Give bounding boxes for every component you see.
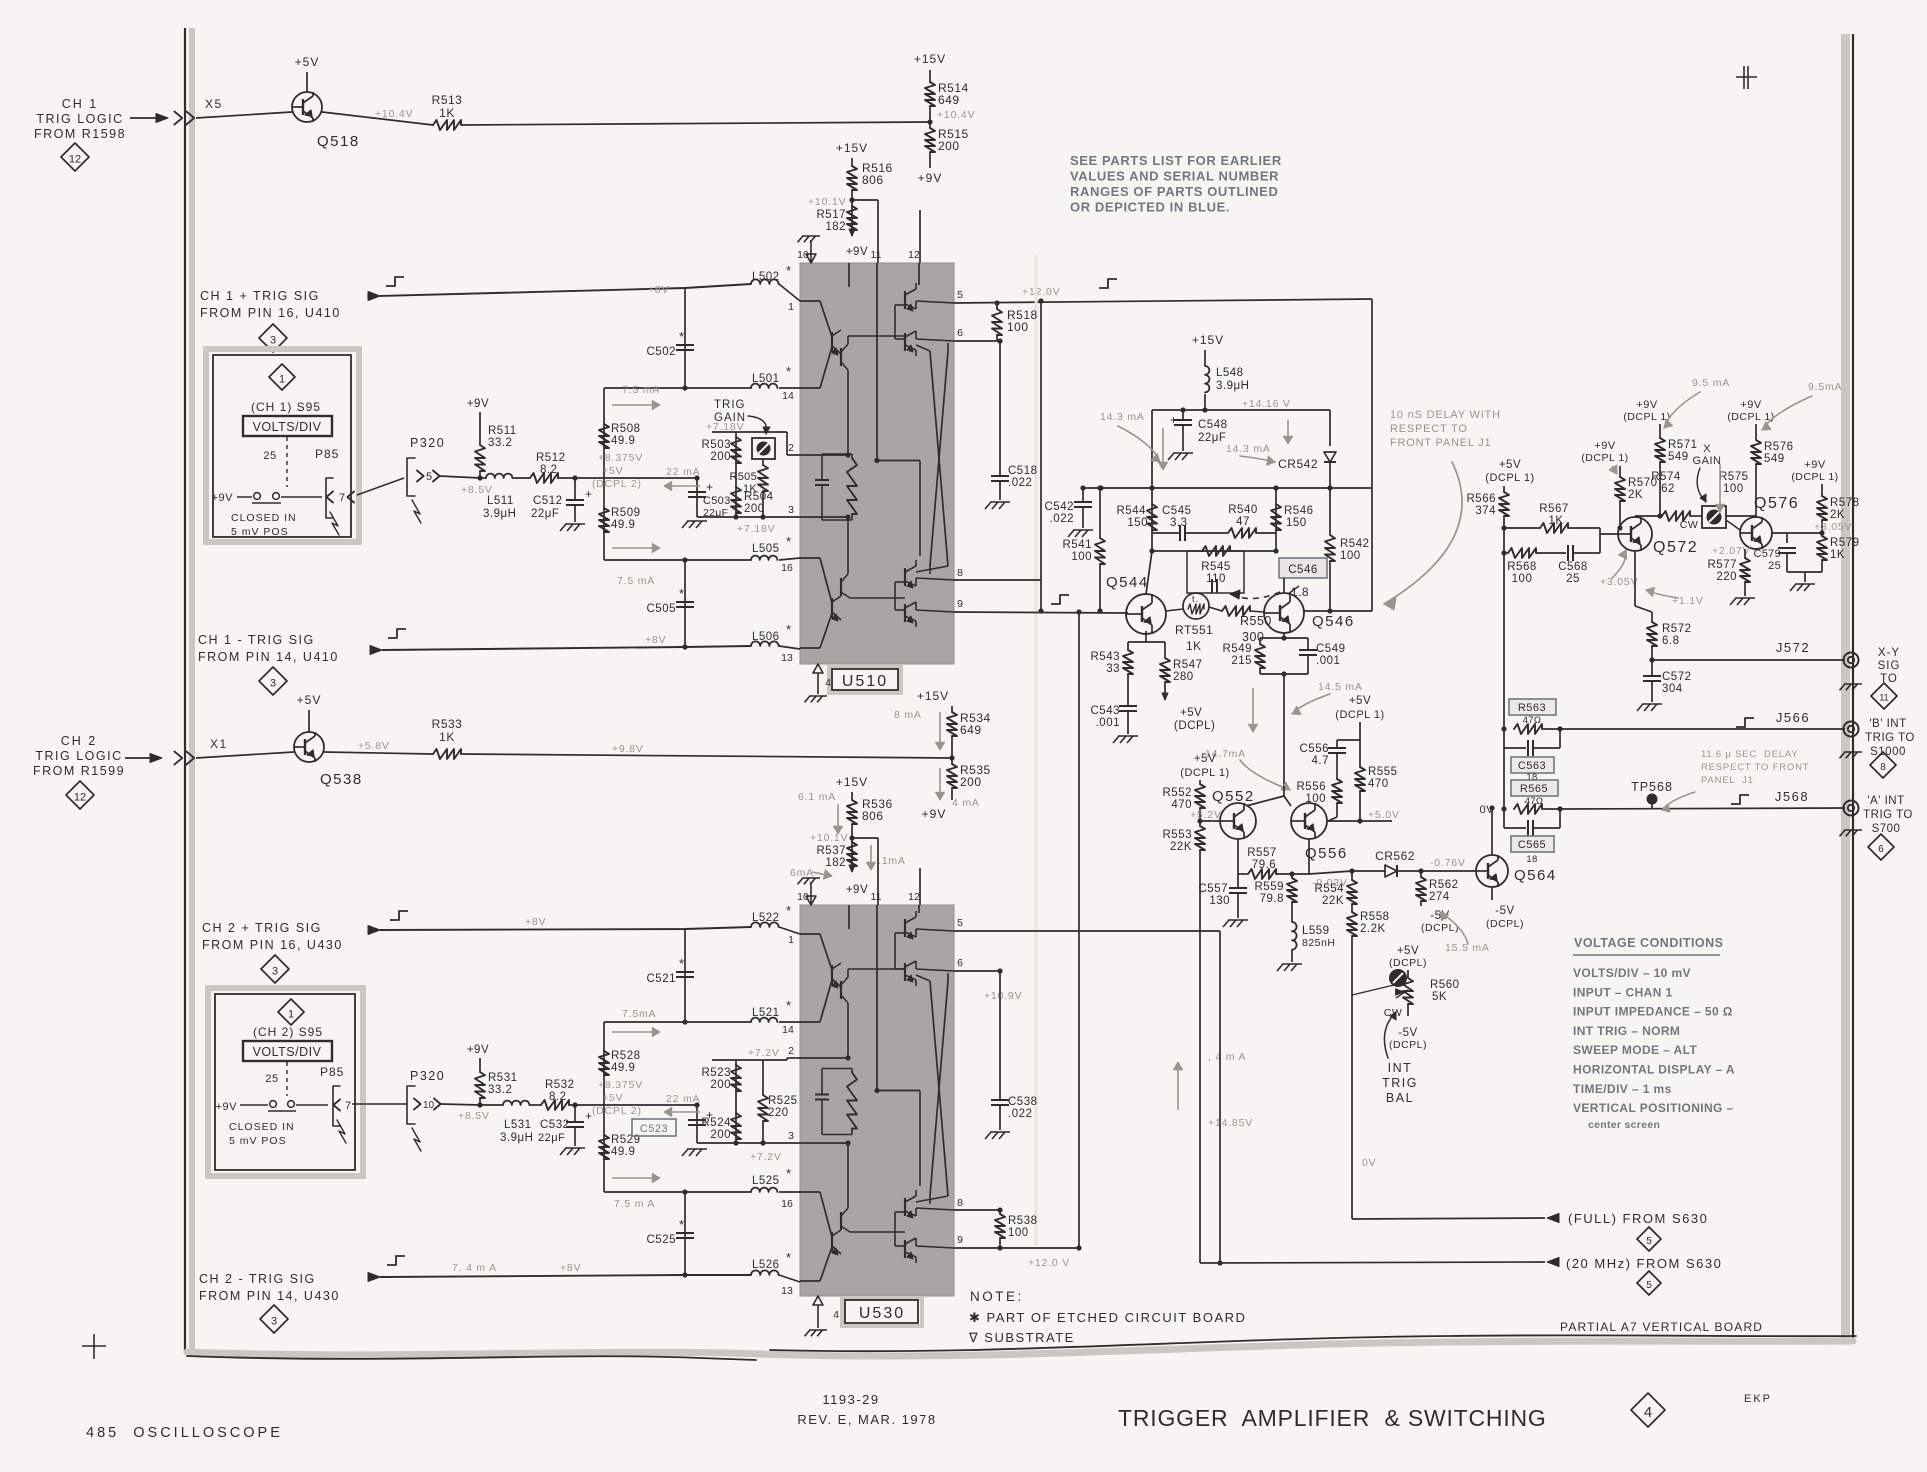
svg-text:+9V: +9V [922,807,947,821]
svg-text:2.2K: 2.2K [1360,923,1386,935]
svg-text:R537: R537 [817,845,847,857]
svg-text:150: 150 [1127,517,1148,529]
svg-text:C502: C502 [647,346,677,358]
svg-text:R505: R505 [730,471,758,483]
svg-text:R553: R553 [1163,829,1193,841]
svg-text:22μF: 22μF [538,1132,565,1144]
svg-text:+5V: +5V [602,465,623,477]
svg-text:2K: 2K [1628,489,1643,501]
svg-text:+9V: +9V [212,492,234,504]
svg-text:+12.0V: +12.0V [1022,286,1060,298]
svg-text:X5: X5 [205,97,223,111]
svg-text:NOTE:: NOTE: [970,1289,1024,1304]
svg-text:C523: C523 [640,1123,668,1135]
svg-text:49.9: 49.9 [611,519,635,531]
svg-text:+9V: +9V [846,884,868,896]
svg-text:C518: C518 [1008,465,1038,477]
svg-text:Q518: Q518 [317,133,360,150]
svg-text:Q576: Q576 [1754,495,1799,512]
svg-text:FROM PIN 14, U430: FROM PIN 14, U430 [199,1289,340,1303]
svg-text:+: + [706,480,714,494]
svg-text:R508: R508 [611,423,641,435]
svg-text:33.2: 33.2 [488,1084,512,1096]
svg-text:+12.0 V: +12.0 V [1028,1257,1070,1269]
svg-text:200: 200 [744,503,765,515]
svg-text:+3.05V: +3.05V [1814,521,1852,533]
svg-text:+8V: +8V [648,284,669,296]
svg-text:+5V: +5V [1180,707,1202,719]
svg-text:INPUT – CHAN 1: INPUT – CHAN 1 [1573,985,1673,999]
svg-text:0V: 0V [1362,1157,1376,1169]
svg-text:25: 25 [265,1073,278,1085]
svg-text:+5V: +5V [295,55,320,69]
svg-text:C503: C503 [703,495,731,507]
svg-text:+9V: +9V [1636,399,1658,411]
svg-text:8 mA: 8 mA [894,709,922,721]
svg-text:R556: R556 [1297,781,1327,793]
svg-text:1K: 1K [743,483,757,495]
svg-text:C538: C538 [1008,1096,1038,1108]
svg-text:4: 4 [825,677,831,689]
svg-text:+9V: +9V [216,1101,238,1113]
svg-text:4: 4 [833,1309,839,1321]
svg-text:CLOSED IN: CLOSED IN [229,1121,295,1133]
svg-text:R542: R542 [1340,538,1370,550]
svg-text:-0.76V: -0.76V [1430,857,1466,869]
svg-text:5: 5 [957,289,963,301]
svg-text:+14.85V: +14.85V [1208,1117,1253,1129]
svg-text:62: 62 [1661,483,1675,495]
svg-text:R545: R545 [1201,561,1231,573]
svg-text:9.5 mA: 9.5 mA [1692,377,1730,389]
svg-text:R577: R577 [1708,559,1738,571]
svg-text:Q564: Q564 [1514,867,1557,884]
svg-text:+10.4V: +10.4V [937,109,975,121]
svg-text:+15V: +15V [836,141,868,155]
svg-text:*: * [786,998,792,1013]
svg-text:TP568: TP568 [1631,780,1673,794]
svg-text:5: 5 [1646,1236,1652,1247]
svg-text:C557: C557 [1199,883,1229,895]
svg-text:5: 5 [426,471,432,483]
svg-text:2: 2 [788,442,794,454]
svg-text:3.9μH: 3.9μH [483,508,516,520]
svg-text:3.3: 3.3 [1170,517,1188,529]
svg-text:+8.375V: +8.375V [598,452,643,464]
svg-text:6.8: 6.8 [1662,635,1680,647]
svg-text:RESPECT TO: RESPECT TO [1390,423,1468,435]
svg-text:+5V: +5V [1349,695,1371,707]
svg-text:∇ SUBSTRATE: ∇ SUBSTRATE [968,1330,1075,1345]
svg-text:+9V: +9V [467,398,489,410]
svg-text:C532: C532 [540,1119,570,1131]
svg-text:8.2: 8.2 [540,464,558,476]
svg-text:6: 6 [957,327,963,339]
svg-text:22 mA: 22 mA [666,466,700,478]
svg-text:12: 12 [69,153,81,165]
svg-text:R578: R578 [1830,497,1860,509]
svg-text:INPUT IMPEDANCE – 50 Ω: INPUT IMPEDANCE – 50 Ω [1573,1005,1733,1019]
svg-text:470: 470 [1368,778,1389,790]
svg-text:FRONT PANEL J1: FRONT PANEL J1 [1390,437,1491,449]
svg-text:J566: J566 [1776,710,1810,725]
svg-text:X: X [1703,443,1711,455]
svg-text:549: 549 [1668,451,1689,463]
svg-text:(DCPL 1): (DCPL 1) [1485,472,1534,484]
svg-text:CR542: CR542 [1278,457,1318,471]
svg-text:INT: INT [1388,1061,1413,1075]
svg-text:+10.1V: +10.1V [808,196,846,208]
svg-text:14: 14 [782,390,794,402]
svg-text:VOLTS/DIV: VOLTS/DIV [253,420,322,434]
svg-text:R533: R533 [432,717,463,731]
svg-text:3: 3 [271,1315,277,1327]
svg-text:+15V: +15V [1192,333,1224,347]
svg-text:✱ PART OF ETCHED CIRCUIT BOARD: ✱ PART OF ETCHED CIRCUIT BOARD [969,1310,1246,1325]
svg-text:+5V: +5V [602,1092,623,1104]
svg-text:16: 16 [781,562,793,574]
svg-text:R552: R552 [1163,787,1193,799]
svg-text:R525: R525 [768,1095,798,1107]
svg-text:+7.2V: +7.2V [748,1047,780,1059]
svg-text:11: 11 [871,891,882,903]
svg-text:12: 12 [908,249,920,261]
svg-text:L526: L526 [752,1259,780,1271]
svg-text:*: * [679,329,685,344]
svg-text:2: 2 [788,1045,794,1057]
svg-text:C505: C505 [647,603,677,615]
svg-text:R543: R543 [1091,651,1121,663]
svg-text:R562: R562 [1429,879,1459,891]
svg-text:U530: U530 [859,1305,905,1322]
svg-text:R509: R509 [611,507,641,519]
svg-text:RESPECT TO FRONT: RESPECT TO FRONT [1701,762,1809,773]
svg-text:R503: R503 [702,439,732,451]
svg-text:R538: R538 [1008,1215,1038,1227]
svg-text:3.9μH: 3.9μH [1216,380,1249,392]
svg-text:11.6 μ SEC DELAY: 11.6 μ SEC DELAY [1701,749,1798,760]
svg-text:+8V: +8V [645,634,666,646]
svg-text:TO: TO [1880,673,1898,685]
svg-text:R513: R513 [432,93,463,107]
svg-text:4.7: 4.7 [1312,755,1330,767]
svg-text:TIME/DIV – 1 ms: TIME/DIV – 1 ms [1573,1082,1672,1096]
svg-text:22μF: 22μF [703,507,728,519]
svg-text:VALUES AND SERIAL NUMBER: VALUES AND SERIAL NUMBER [1070,169,1279,184]
svg-text:X1: X1 [210,737,228,751]
svg-text:+5.0V: +5.0V [1368,809,1400,821]
svg-text:R523: R523 [702,1067,732,1079]
svg-text:(DCPL): (DCPL) [1174,720,1215,732]
svg-text:R558: R558 [1360,911,1390,923]
svg-text:220: 220 [1716,571,1737,583]
svg-text:+3.05V: +3.05V [1600,576,1638,588]
svg-text:CH 1 - TRIG SIG: CH 1 - TRIG SIG [198,633,315,647]
svg-text:+: + [1170,413,1178,427]
svg-text:J572: J572 [1776,640,1810,655]
svg-text:FROM R1599: FROM R1599 [33,764,125,778]
svg-text:(DCPL): (DCPL) [1486,918,1524,930]
svg-text:center screen: center screen [1588,1119,1660,1131]
svg-text:3: 3 [788,504,794,516]
svg-text:L548: L548 [1216,367,1244,379]
svg-text:200: 200 [710,1129,731,1141]
svg-text:130: 130 [1209,895,1230,907]
svg-text:TRIG TO: TRIG TO [1865,732,1915,744]
svg-text:+9V: +9V [1804,459,1826,471]
svg-text:8: 8 [957,567,963,579]
svg-text:R511: R511 [488,425,517,437]
svg-text:R567: R567 [1539,503,1569,515]
svg-text:Q556: Q556 [1305,845,1348,862]
svg-text:274: 274 [1429,891,1450,903]
svg-text:C512: C512 [533,495,563,507]
svg-text:FROM PIN 16, U430: FROM PIN 16, U430 [202,938,343,952]
svg-text:25: 25 [1566,573,1580,585]
svg-text:*: * [679,586,685,601]
svg-text:J568: J568 [1775,789,1809,804]
svg-text:*: * [679,1217,685,1232]
svg-text:11: 11 [1879,693,1888,703]
svg-text:C546: C546 [1288,564,1318,576]
svg-text:*: * [679,956,685,971]
svg-text:R541: R541 [1063,539,1093,551]
svg-text:R512: R512 [536,452,566,464]
svg-text:215: 215 [1231,655,1252,667]
svg-text:79.8: 79.8 [1260,893,1284,905]
svg-text:R576: R576 [1764,441,1794,453]
svg-text:+5V: +5V [1397,945,1419,957]
svg-text:L506: L506 [752,631,780,643]
svg-text:18: 18 [1526,854,1537,865]
svg-text:INT TRIG – NORM: INT TRIG – NORM [1573,1024,1680,1038]
svg-text:(DCPL 1): (DCPL 1) [1727,411,1774,423]
svg-text:(CH 1) S95: (CH 1) S95 [251,400,321,414]
svg-text:C548: C548 [1198,419,1228,431]
svg-text:9: 9 [957,598,963,610]
svg-text:7.5 mA: 7.5 mA [622,384,660,396]
svg-text:C556: C556 [1300,743,1330,755]
svg-text:200: 200 [938,139,960,153]
svg-text:7.5mA: 7.5mA [622,1008,656,1020]
svg-text:+5.2V: +5.2V [1190,809,1222,821]
svg-text:5 mV POS: 5 mV POS [231,526,289,538]
svg-text:R566: R566 [1467,493,1497,505]
svg-text:25: 25 [1768,560,1781,572]
svg-text:3: 3 [270,677,276,689]
svg-text:22K: 22K [1322,895,1344,907]
svg-text:CLOSED IN: CLOSED IN [231,512,297,524]
svg-text:300: 300 [1242,630,1264,644]
svg-text:*: * [786,534,792,549]
svg-text:VOLTS/DIV – 10 mV: VOLTS/DIV – 10 mV [1573,966,1691,980]
svg-text:1K: 1K [1548,515,1563,527]
svg-text:2K: 2K [1830,509,1845,521]
svg-text:22 mA: 22 mA [666,1093,700,1105]
svg-text:182: 182 [825,221,846,233]
svg-text:*: * [786,622,792,637]
svg-text:649: 649 [960,723,982,737]
svg-text:t.: t. [1192,594,1199,604]
svg-text:+8V: +8V [560,1262,581,1274]
svg-text:6: 6 [957,957,963,969]
svg-text:VERTICAL POSITIONING –: VERTICAL POSITIONING – [1573,1101,1734,1115]
svg-text:C542: C542 [1045,501,1075,513]
svg-text:79.6: 79.6 [1252,859,1276,871]
svg-text:0V: 0V [1480,804,1495,816]
svg-text:Q544: Q544 [1106,574,1149,591]
svg-text:825nH: 825nH [1302,937,1335,949]
svg-text:1.8: 1.8 [1291,585,1309,599]
svg-text:R555: R555 [1368,766,1398,778]
svg-text:R575: R575 [1719,471,1749,483]
svg-text:R565: R565 [1520,783,1548,795]
svg-text:6: 6 [1878,844,1884,855]
svg-text:L511: L511 [487,495,514,507]
svg-text:+15V: +15V [914,52,946,66]
svg-text:100: 100 [1723,483,1744,495]
svg-text:S1000: S1000 [1870,746,1906,758]
svg-text:14.3 mA: 14.3 mA [1100,411,1145,423]
svg-text:.022: .022 [1008,1108,1032,1120]
svg-text:R557: R557 [1247,847,1277,859]
svg-text:200: 200 [960,775,982,789]
svg-text:C525: C525 [647,1234,677,1246]
svg-text:+10.4V: +10.4V [375,108,413,120]
svg-text:CH 2: CH 2 [61,734,97,748]
svg-text:VOLTAGE CONDITIONS: VOLTAGE CONDITIONS [1574,936,1724,950]
svg-text:.022: .022 [1050,513,1074,525]
svg-text:*: * [786,1166,792,1181]
svg-text:10: 10 [423,1100,435,1111]
svg-text:R549: R549 [1223,643,1253,655]
svg-text:TRIG: TRIG [1382,1076,1418,1090]
svg-text:+15V: +15V [836,775,868,789]
svg-text:+1.1V: +1.1V [1672,595,1704,607]
svg-text:13: 13 [781,652,793,664]
svg-text:5K: 5K [1432,991,1447,1003]
svg-text:1K: 1K [439,106,455,120]
svg-text:+10.9V: +10.9V [984,990,1022,1002]
svg-text:R550: R550 [1240,614,1272,628]
svg-text:HORIZONTAL DISPLAY – A: HORIZONTAL DISPLAY – A [1573,1063,1735,1077]
svg-text:100: 100 [1512,573,1533,585]
svg-text:R554: R554 [1315,883,1345,895]
svg-text:EKP: EKP [1744,1393,1772,1405]
svg-text:.001: .001 [1096,717,1120,729]
svg-text:22μF: 22μF [1198,432,1226,444]
svg-text:1: 1 [288,1008,294,1020]
svg-text:(DCPL 2): (DCPL 2) [592,1105,642,1117]
svg-text:L505: L505 [752,543,780,555]
svg-text:(DCPL): (DCPL) [1389,957,1427,969]
svg-text:R579: R579 [1830,537,1860,549]
svg-text:C572: C572 [1662,671,1692,683]
svg-text:100: 100 [1305,793,1326,805]
svg-text:R571: R571 [1668,439,1698,451]
svg-text:+5V: +5V [1499,459,1521,471]
svg-text:+14.16 V: +14.16 V [1242,398,1291,410]
svg-text:10 nS DELAY WITH: 10 nS DELAY WITH [1390,409,1501,421]
svg-text:470: 470 [1171,799,1192,811]
svg-text:+15V: +15V [917,689,949,703]
svg-text:9.5mA: 9.5mA [1808,381,1842,393]
svg-text:TRIGGER AMPLIFIER & SWITCHIN: TRIGGER AMPLIFIER & SWITCHING [1118,1405,1547,1431]
svg-text:(DCPL 1): (DCPL 1) [1335,709,1384,721]
svg-text:22K: 22K [1170,841,1192,853]
svg-text:Q546: Q546 [1312,613,1355,630]
svg-text:220: 220 [768,1107,789,1119]
svg-text:549: 549 [1764,453,1785,465]
svg-text:C563: C563 [1518,760,1546,772]
svg-text:BAL: BAL [1386,1091,1414,1105]
svg-text:+8.5V: +8.5V [458,1110,490,1122]
svg-text:*: * [786,364,792,379]
svg-text:3: 3 [270,334,276,346]
svg-text:1K: 1K [439,730,455,744]
svg-text:25: 25 [263,450,276,462]
svg-text:33.2: 33.2 [488,437,512,449]
svg-text:.001: .001 [1316,655,1340,667]
svg-text:(DCPL 1): (DCPL 1) [1623,411,1670,423]
svg-text:R531: R531 [488,1072,518,1084]
svg-text:14: 14 [782,1024,794,1036]
svg-text:R559: R559 [1255,881,1285,893]
svg-text:VOLTS/DIV: VOLTS/DIV [253,1045,322,1059]
svg-text:4 mA: 4 mA [952,797,980,809]
svg-text:TRIG LOGIC: TRIG LOGIC [36,112,123,126]
svg-text:PANEL J1: PANEL J1 [1701,775,1754,786]
svg-text:TRIG LOGIC: TRIG LOGIC [35,749,122,763]
svg-text:182: 182 [825,857,846,869]
svg-text:200: 200 [710,1079,731,1091]
svg-text:CH 2 - TRIG SIG: CH 2 - TRIG SIG [199,1272,316,1286]
svg-text:5 mV POS: 5 mV POS [229,1135,287,1147]
svg-text:L531: L531 [504,1119,532,1131]
svg-text:RANGES OF PARTS OUTLINED: RANGES OF PARTS OUTLINED [1070,184,1278,199]
svg-text:TRIG TO: TRIG TO [1863,809,1913,821]
svg-text:.1mA: .1mA [878,855,906,867]
svg-text:, 4 m A: , 4 m A [1208,1051,1246,1063]
svg-text:R546: R546 [1284,505,1314,517]
svg-text:+5V: +5V [297,693,322,707]
svg-text:CW: CW [1680,519,1699,531]
svg-text:X-Y: X-Y [1878,647,1900,659]
svg-text:PARTIAL A7 VERTICAL BOARD: PARTIAL A7 VERTICAL BOARD [1560,1320,1763,1334]
svg-text:SEE PARTS LIST FOR EARLIER: SEE PARTS LIST FOR EARLIER [1070,153,1282,168]
svg-text:150: 150 [1286,517,1307,529]
svg-text:(DCPL 2): (DCPL 2) [592,478,642,490]
svg-text:47: 47 [1236,516,1250,528]
svg-text:+5.8V: +5.8V [358,740,390,752]
svg-text:49.9: 49.9 [611,435,635,447]
svg-text:806: 806 [862,173,884,187]
svg-text:+7.18V: +7.18V [737,523,775,535]
svg-text:R563: R563 [1518,702,1546,714]
svg-text:CH 2 + TRIG SIG: CH 2 + TRIG SIG [202,921,322,935]
svg-text:-5V: -5V [1398,1027,1417,1039]
svg-text:(DCPL 1): (DCPL 1) [1791,471,1838,483]
svg-text:-5V: -5V [1495,905,1514,917]
svg-text:1: 1 [788,934,794,946]
svg-text:8.2: 8.2 [549,1091,567,1103]
svg-text:+10.1V: +10.1V [810,832,848,844]
svg-text:Q552: Q552 [1212,788,1255,805]
svg-text:7. 4 m A: 7. 4 m A [452,1262,497,1274]
svg-text:R517: R517 [817,209,847,221]
svg-text:100: 100 [1008,1227,1029,1239]
svg-text:C543: C543 [1091,705,1121,717]
